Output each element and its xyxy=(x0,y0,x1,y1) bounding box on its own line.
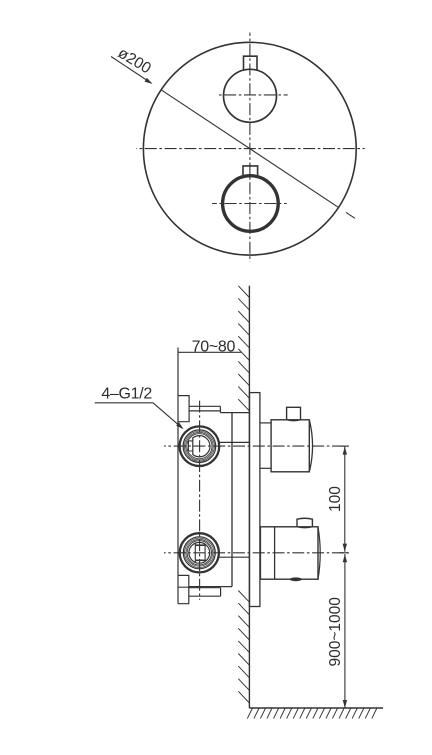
top handle neck stub bottom xyxy=(260,467,271,469)
bottom port outer circle xyxy=(180,533,219,572)
diameter leader arrowhead xyxy=(145,78,154,86)
top port ring 2 xyxy=(183,430,216,463)
bottom handle step line xyxy=(274,527,276,579)
diameter leader line xyxy=(111,57,152,84)
bottom mounting tab xyxy=(178,575,189,603)
svg-text:100: 100 xyxy=(327,486,344,512)
bottom port slot top mark xyxy=(195,544,205,546)
svg-text:70~80: 70~80 xyxy=(192,338,236,355)
bottom handle knob xyxy=(297,518,312,527)
bottom handle knob base arc xyxy=(297,527,312,528)
bottom handle body xyxy=(260,527,318,579)
top port D-bore xyxy=(193,436,210,457)
bottom port slot bottom mark xyxy=(195,559,205,561)
bottom knob centerline xyxy=(212,203,287,205)
bottom port fine ring a xyxy=(185,538,214,567)
top port fine ring a xyxy=(184,431,214,461)
top mounting tab xyxy=(178,396,189,422)
dimension 100 top arrowhead xyxy=(343,447,347,455)
top port keyway notch xyxy=(188,441,192,451)
top cartridge stub to wall xyxy=(219,441,249,443)
top handle end cap arc xyxy=(309,420,312,472)
vertical centerline through ports xyxy=(199,399,201,600)
top centerline solid segment at dimension junction xyxy=(340,445,349,447)
diameter chord line xyxy=(161,90,338,207)
dimension 900~1000 top arrowhead xyxy=(343,554,347,562)
bottom port fine ring c xyxy=(187,541,211,565)
valve body bottom edge xyxy=(189,586,232,588)
wall line xyxy=(248,286,250,708)
bottom centerline solid segment at dimension junction xyxy=(340,552,349,554)
bottom port slot right edge xyxy=(204,544,206,561)
top port outer circle xyxy=(180,426,220,466)
bottom pipe stub lines xyxy=(189,588,221,597)
dimension 900~1000 line xyxy=(344,554,346,708)
bottom port inner bore xyxy=(189,542,210,563)
wall hatching lower section xyxy=(238,591,249,704)
bottom knob circle (thick) xyxy=(223,176,279,232)
faceplate large circle xyxy=(143,42,356,255)
dimension 100 line xyxy=(344,446,346,552)
top port horizontal centerline (shared with top handle) xyxy=(164,445,349,447)
floor line xyxy=(249,707,383,709)
bottom port slot left edge xyxy=(194,543,196,562)
top handle knob xyxy=(287,407,301,420)
svg-text:4–G1/2: 4–G1/2 xyxy=(101,386,152,403)
wall hatching upper section xyxy=(238,286,249,411)
bottom knob stem tab xyxy=(243,166,258,176)
top knob centerline xyxy=(217,94,288,96)
svg-text:900~1000: 900~1000 xyxy=(327,597,344,667)
top port fine ring b xyxy=(186,432,214,460)
top handle body xyxy=(271,420,309,472)
vertical centerline of faceplate xyxy=(249,33,251,262)
horizontal centerline of faceplate xyxy=(136,148,364,150)
top knob stem tab xyxy=(244,56,258,70)
dimension 70~80 line xyxy=(178,351,241,353)
bottom tab divider xyxy=(178,586,189,588)
top handle neck stub top xyxy=(260,422,271,424)
bottom port fine ring b xyxy=(186,539,213,566)
label 4-G1/2 arrowhead xyxy=(176,422,185,431)
floor hatching xyxy=(247,708,377,719)
bottom handle lever button xyxy=(290,577,302,581)
diameter tail dash xyxy=(346,212,355,218)
bottom port horizontal centerline (shared with bottom handle) xyxy=(164,552,349,554)
bottom port ring 2 xyxy=(183,537,215,569)
bottom cartridge stub to wall xyxy=(219,556,250,558)
label 4-G1/2 leader xyxy=(153,403,183,429)
valve bracket left edge + dimension extension line xyxy=(177,348,179,604)
dimension 100 bottom arrowhead xyxy=(343,544,347,552)
escutcheon plate xyxy=(250,393,260,607)
dimension 900~1000 bottom arrowhead xyxy=(343,700,347,708)
valve body top edge xyxy=(220,412,249,414)
label 4-G1/2 underline xyxy=(95,402,153,404)
top port fine ring c xyxy=(187,434,212,459)
top handle knob base arc xyxy=(287,420,301,421)
top knob circle xyxy=(224,69,277,122)
valve body right edge xyxy=(231,413,233,587)
top pipe stub lines xyxy=(189,406,220,412)
bottom handle end cap arc xyxy=(318,527,320,579)
